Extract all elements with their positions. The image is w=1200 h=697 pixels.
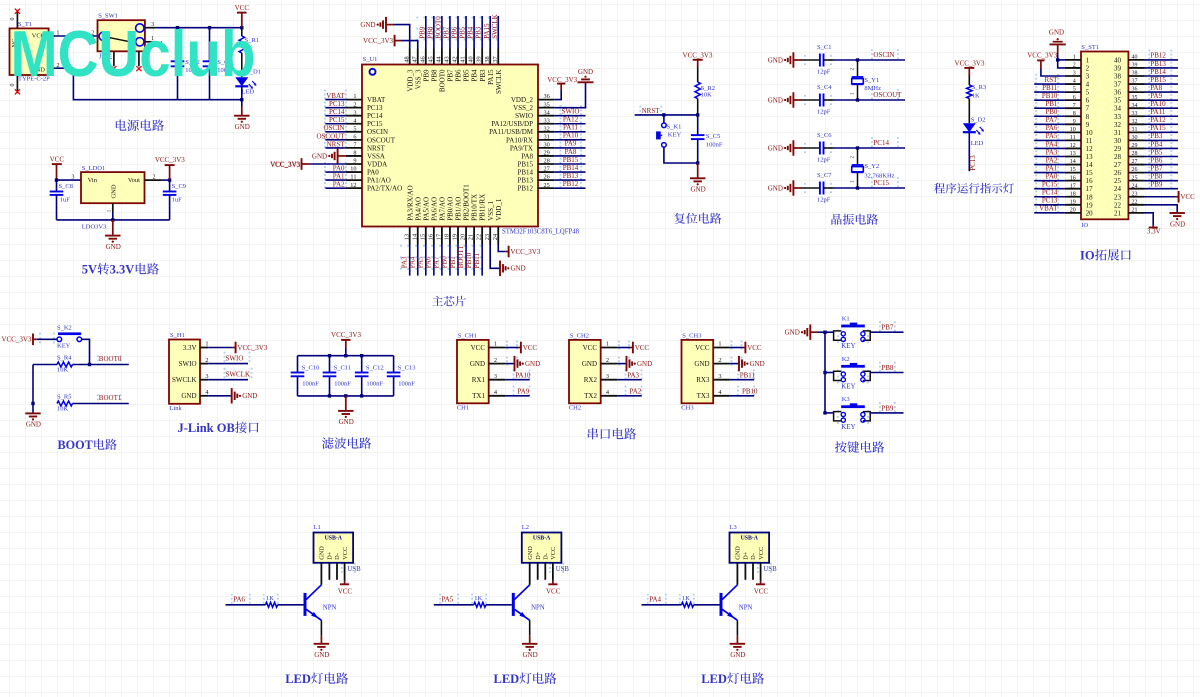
junction key K1 — [823, 331, 826, 334]
title LED circuit 2 — [494, 672, 557, 686]
wire resistor to base — [278, 604, 304, 606]
svg-text:S_CH3: S_CH3 — [682, 332, 701, 339]
wire R3 to D2 — [968, 99, 970, 124]
svg-text:23: 23 — [1114, 193, 1122, 201]
svg-text:NPN: NPN — [739, 605, 753, 612]
net label OSCOUT — [873, 91, 902, 99]
svg-text:BOOT0: BOOT0 — [435, 16, 443, 39]
svg-text:34: 34 — [544, 109, 551, 116]
ground at U1 pin 35 — [554, 68, 593, 108]
svg-text:1: 1 — [205, 341, 208, 348]
svg-text:34: 34 — [1132, 103, 1138, 109]
svg-text:8: 8 — [1086, 113, 1090, 121]
SW1 bottom pins (unconnected) — [111, 51, 141, 71]
wire net PA10 at ST1 pin 34 — [1145, 100, 1179, 108]
ST1 pin 5 stub — [1065, 87, 1090, 97]
ST1 pin 37 stub — [1114, 79, 1145, 89]
svg-text:VCC: VCC — [754, 588, 769, 596]
svg-text:SWIO: SWIO — [179, 360, 197, 368]
junction key K2 — [823, 371, 826, 374]
ST1 pin 15 stub — [1065, 167, 1093, 177]
svg-text:32: 32 — [1114, 121, 1122, 129]
svg-text:RX2: RX2 — [584, 376, 598, 384]
CH2 pin 3 stub — [601, 373, 618, 380]
svg-text:VCC: VCC — [523, 344, 538, 352]
svg-text:30: 30 — [1132, 135, 1138, 141]
svg-text:3: 3 — [718, 373, 721, 380]
svg-text:40: 40 — [1114, 56, 1122, 64]
svg-text:IO: IO — [1080, 249, 1095, 263]
svg-text:28: 28 — [544, 158, 550, 165]
wire net PB11 at CH3 pin 3 — [730, 371, 756, 379]
svg-text:40: 40 — [1132, 55, 1138, 61]
U1 pin 28 (PB15) stub — [517, 158, 554, 169]
U1 pin 37 (SWCLK) stub — [492, 49, 503, 94]
svg-text:26: 26 — [544, 174, 550, 181]
svg-text:PA6: PA6 — [1046, 124, 1058, 132]
svg-text:42: 42 — [452, 56, 459, 62]
title button circuit — [835, 441, 884, 453]
svg-text:S_D2: S_D2 — [971, 116, 986, 123]
wire net PB5 at ST1 pin 28 — [1145, 148, 1179, 156]
svg-text:S_R5: S_R5 — [57, 394, 71, 401]
net label PC14 — [873, 139, 889, 147]
svg-text:S_C8: S_C8 — [59, 183, 73, 190]
wire net PB1 at U1 pin 19 — [449, 245, 458, 276]
ST1 pin 10 stub — [1065, 127, 1093, 137]
title crystal circuit — [831, 214, 878, 225]
CH3 pin 1 stub — [713, 341, 730, 348]
svg-text:PA5/AO: PA5/AO — [422, 197, 430, 221]
svg-text:PB12: PB12 — [1150, 52, 1166, 60]
wire net PA7 at ST1 pin 9 — [1034, 116, 1065, 124]
ground at U1 pin 48 — [360, 17, 409, 49]
wire net PA0 at U1 pin 10 — [325, 164, 345, 172]
svg-text:29: 29 — [1114, 145, 1122, 153]
svg-text:K2: K2 — [842, 356, 850, 363]
svg-text:PA1: PA1 — [1046, 164, 1058, 172]
svg-text:PA12: PA12 — [1150, 116, 1166, 124]
svg-text:GND: GND — [525, 360, 540, 368]
ST1 pin 3 stub — [1065, 71, 1090, 81]
svg-text:13: 13 — [1086, 153, 1094, 161]
ST1 pin 30 stub — [1114, 135, 1145, 145]
svg-text:USB-A: USB-A — [533, 535, 551, 541]
ground at CH2 pin 2 — [617, 356, 652, 371]
wire net PB9 at ST1 pin 24 — [1145, 181, 1179, 189]
svg-text:PA0: PA0 — [1046, 172, 1058, 180]
svg-text:VDD_1: VDD_1 — [495, 198, 503, 221]
svg-text:PB13: PB13 — [1150, 60, 1166, 68]
L2 pin VCC stub — [552, 563, 554, 581]
wire net PB6 at U1 pin 42 — [451, 16, 459, 49]
U1 pin 2 (PC13) stub — [346, 101, 383, 112]
connector L2 USB-A body — [522, 524, 562, 563]
wire net PA5 at ST1 pin 11 — [1034, 132, 1065, 140]
svg-text:13: 13 — [403, 234, 410, 240]
svg-text:1: 1 — [494, 341, 497, 348]
svg-text:1: 1 — [107, 209, 113, 212]
U1 pin 38 (PA15) stub — [484, 49, 495, 85]
connector ST1 body — [1081, 44, 1128, 229]
title reset circuit — [674, 213, 721, 224]
junction ST1 pin1 gnd — [1056, 58, 1059, 61]
wire net PA9 at U1 pin 30 — [554, 140, 585, 148]
wire net PB6 at ST1 pin 27 — [1145, 156, 1179, 164]
junction R5 left — [31, 402, 34, 405]
ST1 pin 20 stub — [1065, 207, 1093, 217]
selection highlight marks (decorative) — [39, 17, 1172, 604]
svg-text:7: 7 — [1073, 103, 1076, 109]
svg-text:S_C12: S_C12 — [366, 364, 384, 371]
svg-text:SWIO: SWIO — [515, 112, 533, 120]
svg-text:23: 23 — [484, 234, 491, 240]
svg-text:PB9: PB9 — [422, 69, 430, 82]
svg-text:PB0/AO: PB0/AO — [447, 197, 455, 221]
svg-text:11: 11 — [350, 174, 356, 181]
wire net PA11 at U1 pin 32 — [554, 124, 585, 132]
ST1 pin 11 stub — [1065, 135, 1093, 145]
svg-text:100nF: 100nF — [334, 381, 351, 388]
svg-text:CH2: CH2 — [569, 405, 581, 412]
U1 pin 36 (VDD_2) stub — [511, 93, 554, 104]
U1 pin 26 (PB13) stub — [517, 174, 554, 185]
svg-text:GND: GND — [339, 418, 354, 426]
svg-text:S_C1: S_C1 — [817, 44, 831, 51]
svg-text:VCC_3V3: VCC_3V3 — [1, 336, 31, 344]
svg-text:BOOT0: BOOT0 — [99, 355, 122, 363]
svg-text:Link: Link — [170, 405, 183, 412]
wire net PB7 at ST1 pin 26 — [1145, 164, 1179, 172]
part number label STM32F103C8T6_LQFP48 — [502, 229, 580, 236]
svg-text:PA4/AO: PA4/AO — [414, 197, 422, 221]
svg-text:PB12: PB12 — [517, 185, 533, 193]
svg-text:S_LDO1: S_LDO1 — [82, 165, 105, 172]
wire net PB4 at U1 pin 40 — [467, 16, 475, 49]
U1 pin 21 (PB10/TX) stub — [468, 194, 479, 245]
svg-text:PB12: PB12 — [563, 180, 579, 188]
wire net PB15 at ST1 pin 37 — [1145, 76, 1179, 84]
title 5V to 3.3V circuit — [82, 263, 159, 277]
wire net PA4 to base resistor — [642, 596, 682, 605]
wire net SWCLK at U1 pin 37 — [491, 14, 499, 48]
wire net PA10 at CH1 pin 3 — [505, 371, 531, 379]
svg-text:VCC_3V3: VCC_3V3 — [683, 51, 713, 59]
U1 pin 14 (PA4/AO) stub — [411, 197, 422, 245]
svg-text:VCC_3V3: VCC_3V3 — [547, 76, 577, 84]
svg-text:12: 12 — [1070, 143, 1076, 149]
LED D1 — [235, 69, 261, 96]
ST1 pin 40 stub — [1114, 55, 1145, 65]
svg-text:GND: GND — [694, 360, 709, 368]
title filter circuit — [322, 437, 371, 449]
svg-text:30: 30 — [544, 142, 550, 149]
svg-text:PB1: PB1 — [1045, 100, 1058, 108]
connector T1 (TYPE-C-2P) — [10, 21, 51, 82]
title LED circuit 3 — [701, 672, 764, 686]
svg-text:46: 46 — [419, 56, 426, 62]
svg-text:3: 3 — [353, 109, 356, 116]
ST1 pin 22 stub — [1114, 199, 1145, 209]
svg-text:SWCLK: SWCLK — [491, 14, 499, 38]
svg-text:1K: 1K — [266, 595, 274, 602]
junction key K3 — [823, 411, 826, 414]
switch SW1 — [98, 13, 145, 59]
svg-text:PB3: PB3 — [1150, 132, 1163, 140]
CH3 pin 4 stub — [713, 389, 730, 396]
wire net PC13 at ST1 pin 19 — [1034, 197, 1065, 205]
svg-text:PA11: PA11 — [1150, 108, 1166, 116]
svg-text:24: 24 — [1114, 185, 1122, 193]
svg-text:23: 23 — [1132, 191, 1138, 197]
junction NRST / key — [662, 113, 665, 116]
wire net PA6 at U1 pin 16 — [425, 245, 434, 276]
svg-text:D-: D- — [334, 553, 341, 560]
svg-text:S_C10: S_C10 — [302, 364, 320, 371]
svg-text:PA3: PA3 — [1046, 148, 1058, 156]
svg-text:RX3: RX3 — [696, 376, 710, 384]
svg-text:PA12/USB/DP: PA12/USB/DP — [491, 120, 533, 128]
U1 pin 13 (PA3/RX/AO) stub — [403, 185, 414, 244]
svg-text:PA10: PA10 — [1150, 100, 1166, 108]
svg-text:S_Y1: S_Y1 — [864, 77, 879, 84]
wire net PA10 at U1 pin 31 — [554, 132, 585, 140]
wire net PB10 at U1 pin 21 — [465, 245, 474, 276]
svg-text:6: 6 — [1086, 97, 1090, 105]
wire gnd to key column — [818, 332, 826, 413]
wire net PA6 to base resistor — [226, 596, 266, 605]
svg-text:TX2: TX2 — [584, 392, 597, 400]
ground GND power circuit — [234, 106, 250, 131]
svg-text:21: 21 — [1114, 209, 1122, 217]
svg-text:36: 36 — [1114, 89, 1122, 97]
svg-text:38: 38 — [484, 56, 491, 62]
svg-text:VCC: VCC — [1180, 193, 1195, 201]
svg-text:38: 38 — [1132, 71, 1138, 77]
svg-text:1uF: 1uF — [172, 197, 183, 204]
svg-text:PA11: PA11 — [563, 124, 579, 132]
svg-text:22: 22 — [1132, 199, 1138, 205]
svg-text:PB8: PB8 — [430, 69, 438, 82]
svg-text:20: 20 — [460, 234, 467, 240]
svg-text:33: 33 — [544, 117, 550, 124]
svg-text:17: 17 — [1086, 185, 1094, 193]
power flag VCC_3V3 at U1 pin 24 VDD_1 — [498, 245, 541, 258]
ST1 pin 32 stub — [1114, 119, 1145, 129]
svg-text:GND: GND — [314, 651, 329, 659]
svg-text:3: 3 — [606, 373, 609, 380]
svg-text:PA9: PA9 — [1150, 92, 1162, 100]
wire to LDO pin3 — [57, 175, 82, 181]
svg-text:28: 28 — [1114, 153, 1122, 161]
wire net PB10 at ST1 pin 6 — [1034, 92, 1065, 100]
power flag 3.3V at ST1 pin 21 — [1145, 213, 1161, 236]
ST1 pin 8 stub — [1065, 111, 1090, 121]
wire net PA4 at U1 pin 14 — [409, 245, 418, 276]
L2 pin GND stub — [529, 563, 531, 585]
svg-text:5: 5 — [353, 125, 356, 132]
svg-text:48: 48 — [403, 56, 410, 62]
wire key to gnd rail — [664, 147, 698, 163]
U1 pin 48 (VDD_3) stub — [403, 49, 414, 92]
svg-text:4: 4 — [1073, 79, 1076, 85]
wire net OSCIN at U1 pin 5 — [323, 124, 345, 132]
svg-text:PB7: PB7 — [447, 69, 455, 82]
svg-text:12: 12 — [1086, 145, 1094, 153]
svg-text:PB7: PB7 — [443, 26, 451, 39]
svg-text:GND: GND — [511, 265, 526, 273]
net label USB L1 — [347, 566, 361, 573]
capacitor C9 1uF — [163, 180, 186, 220]
svg-text:PB10: PB10 — [742, 387, 758, 395]
ST1 pin 31 stub — [1114, 127, 1145, 137]
ST1 pin 7 stub — [1065, 103, 1090, 113]
svg-text:17: 17 — [1070, 183, 1076, 189]
resistor 1K base L2 — [474, 595, 486, 607]
svg-text:39: 39 — [1132, 63, 1138, 69]
svg-text:26: 26 — [1114, 169, 1122, 177]
svg-text:100nF: 100nF — [302, 381, 319, 388]
svg-text:PA6: PA6 — [233, 596, 245, 604]
svg-text:RST: RST — [1045, 76, 1059, 84]
power flag VCC at L2 — [546, 581, 561, 596]
wire resistor to base — [694, 604, 720, 606]
svg-text:PA2/TX/AO: PA2/TX/AO — [367, 185, 402, 193]
svg-text:5: 5 — [1086, 89, 1090, 97]
svg-text:GND: GND — [785, 329, 800, 337]
U1 pin 46 (PB9) stub — [419, 49, 430, 82]
svg-text:NPN: NPN — [323, 605, 337, 612]
svg-text:38: 38 — [1114, 73, 1122, 81]
svg-text:PB14: PB14 — [1150, 68, 1166, 76]
U1 pin 30 (PA9/TX) stub — [510, 142, 554, 153]
svg-text:PB7: PB7 — [881, 324, 894, 332]
svg-text:PA8: PA8 — [521, 152, 533, 160]
wire net PC14 at ST1 pin 18 — [1034, 189, 1065, 197]
svg-text:VCC_3V3: VCC_3V3 — [331, 331, 361, 339]
capacitor C8 1uF — [50, 180, 73, 220]
svg-text:18: 18 — [1086, 193, 1094, 201]
svg-text:CH3: CH3 — [681, 405, 693, 412]
junction filter rails C12 — [360, 354, 363, 398]
ground GND filter — [338, 396, 354, 426]
svg-text:GND: GND — [730, 651, 745, 659]
svg-text:BOOT0: BOOT0 — [439, 69, 447, 92]
L1 pin D- stub — [336, 563, 338, 580]
svg-text:1: 1 — [353, 93, 356, 100]
U1 pin 19 (PB1/AO) stub — [452, 197, 463, 245]
svg-text:PA9: PA9 — [565, 140, 577, 148]
svg-text:S_C11: S_C11 — [334, 364, 351, 371]
svg-text:NRST: NRST — [642, 107, 661, 115]
wire net PB1 at ST1 pin 7 — [1034, 100, 1065, 108]
wire net PB0 at U1 pin 18 — [441, 245, 450, 276]
svg-text:17: 17 — [436, 234, 443, 240]
svg-text:10: 10 — [1086, 129, 1094, 137]
svg-text:PB15: PB15 — [563, 156, 579, 164]
wire net SWIO at H1 pin 2 — [208, 354, 248, 363]
wire net PA9 at CH1 pin 4 — [505, 387, 530, 395]
svg-text:3: 3 — [1086, 73, 1090, 81]
wire net PA11 at ST1 pin 33 — [1145, 108, 1179, 116]
svg-text:27: 27 — [1114, 161, 1122, 169]
wire to key K3 — [825, 412, 834, 414]
svg-text:100nF: 100nF — [366, 381, 383, 388]
U1 pin 7 (NRST) stub — [346, 142, 386, 153]
svg-text:GND: GND — [527, 546, 534, 560]
svg-text:NRST: NRST — [367, 144, 386, 152]
net label USB L2 — [556, 566, 570, 573]
svg-text:PB7: PB7 — [1150, 164, 1163, 172]
ground GND at ST1 pins 1-2 — [1049, 29, 1066, 68]
svg-text:GND: GND — [523, 651, 538, 659]
U1 pin 45 (PB8) stub — [427, 49, 438, 82]
svg-text:VDD_3: VDD_3 — [406, 69, 414, 92]
capacitor C2 100nF — [171, 28, 203, 100]
svg-text:35: 35 — [544, 101, 550, 108]
svg-text:12pF: 12pF — [817, 68, 831, 75]
wire LDO gnd rail — [57, 212, 170, 220]
svg-text:47: 47 — [411, 56, 418, 62]
wire net PB7 at U1 pin 43 — [443, 16, 451, 49]
svg-text:PB13: PB13 — [563, 172, 579, 180]
svg-text:8MHz: 8MHz — [864, 85, 881, 92]
resistor R1 1K — [239, 28, 259, 78]
wire net PB12 at ST1 pin 40 — [1145, 52, 1179, 60]
svg-text:VCC: VCC — [747, 344, 762, 352]
svg-text:S_C5: S_C5 — [706, 133, 720, 140]
U1 pin 12 (PA2/TX/AO) stub — [346, 182, 402, 193]
svg-text:3: 3 — [494, 373, 497, 380]
svg-text:LED: LED — [494, 672, 520, 686]
title power circuit — [116, 119, 164, 131]
svg-text:41: 41 — [460, 56, 467, 62]
svg-text:GND: GND — [319, 546, 326, 560]
svg-text:39: 39 — [476, 56, 483, 62]
svg-text:16: 16 — [427, 234, 434, 240]
wire net VBAT at U1 pin 1 — [325, 92, 345, 100]
U1 pin 42 (PB6) stub — [452, 49, 463, 82]
ST1 pin 25 stub — [1114, 175, 1145, 185]
svg-text:1K: 1K — [474, 595, 482, 602]
svg-text:6: 6 — [1073, 95, 1076, 101]
svg-text:PB6: PB6 — [1150, 156, 1163, 164]
CH1 pin 2 stub — [489, 357, 506, 364]
H1 pin 4 stub — [200, 389, 209, 396]
wire net PB14 at ST1 pin 38 — [1145, 68, 1179, 76]
wire net PA3 at U1 pin 13 — [401, 245, 410, 276]
svg-text:PB3: PB3 — [475, 26, 483, 39]
wire net NRST at U1 pin 7 — [325, 140, 345, 148]
U1 pin 43 (PB7) stub — [444, 49, 455, 82]
U1 pin 11 (PA1/AO) stub — [346, 174, 391, 185]
ST1 pin 2 stub — [1065, 63, 1090, 73]
svg-text:VDDA: VDDA — [367, 160, 387, 168]
T1 pin 1 stub — [49, 31, 60, 37]
svg-text:GND: GND — [360, 21, 375, 29]
key K2 — [834, 356, 871, 391]
wire net PA8 at ST1 pin 36 — [1145, 84, 1179, 92]
CH2 pin 2 stub — [601, 357, 618, 364]
U1 pin 20 (PB2/BOOT1) stub — [460, 184, 471, 245]
power flag VCC_3V3 filter — [331, 331, 361, 356]
svg-text:SWCLK: SWCLK — [495, 69, 503, 94]
svg-text:2: 2 — [718, 357, 721, 364]
ST1 pin 27 stub — [1114, 159, 1145, 169]
junction filter rails C11 — [328, 354, 331, 398]
junction VCC / C8 / LDO in — [55, 178, 58, 181]
svg-text:10K: 10K — [701, 92, 713, 99]
